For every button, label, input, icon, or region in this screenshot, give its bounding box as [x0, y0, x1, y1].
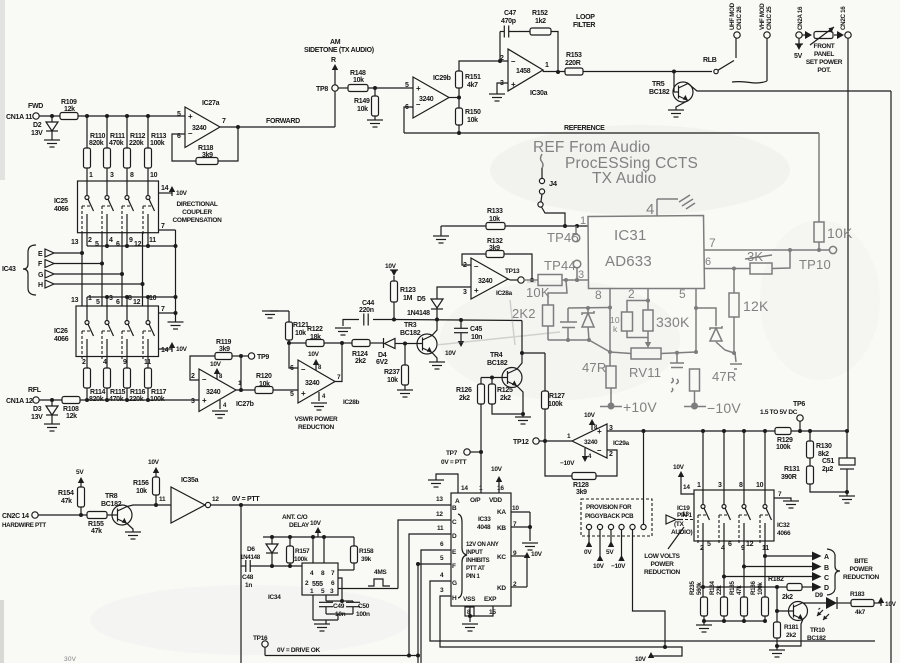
svg-text:10V: 10V — [635, 656, 647, 663]
resistor R113 100k — [145, 116, 167, 181]
svg-text:LOOP: LOOP — [576, 14, 595, 21]
svg-text:R112: R112 — [130, 133, 146, 140]
IC33 pin14 ground — [428, 474, 458, 493]
op-amp IC28b 3240 — [290, 360, 360, 406]
svg-text:BC182: BC182 — [101, 501, 122, 508]
resistor R122 18k — [289, 326, 342, 347]
svg-text:8: 8 — [595, 288, 602, 302]
svg-text:UHF MOD: UHF MOD — [729, 2, 736, 30]
svg-text:3: 3 — [440, 587, 444, 594]
op-amp IC30a 1458 — [500, 49, 549, 97]
svg-text:4MS: 4MS — [374, 569, 387, 576]
ground below TR3 emitter — [429, 353, 445, 370]
svg-text:14: 14 — [161, 185, 169, 192]
svg-text:R186: R186 — [750, 581, 757, 595]
capacitor C44 220n — [343, 300, 395, 326]
svg-text:R181: R181 — [784, 624, 799, 631]
svg-text:R155: R155 — [88, 521, 104, 528]
jumper J4 — [538, 168, 565, 226]
piggyback pad 5V — [606, 524, 614, 556]
svg-text:–: – — [474, 262, 479, 271]
svg-text:BC182: BC182 — [487, 360, 508, 367]
svg-text:IC32: IC32 — [777, 522, 790, 529]
label ANT C/O DELAY — [282, 514, 310, 529]
svg-text:IC35a: IC35a — [181, 477, 199, 484]
resistor R151 4k7 — [456, 71, 481, 98]
switch 4 inside IC32 — [760, 431, 772, 544]
svg-text:R151: R151 — [465, 74, 481, 81]
svg-text:10V: 10V — [445, 350, 457, 357]
svg-text:R153: R153 — [566, 52, 582, 59]
resistor 12K pencil — [729, 269, 769, 370]
pointer line — [668, 527, 684, 549]
svg-text:D3: D3 — [33, 406, 42, 413]
brace BITE — [827, 549, 840, 595]
svg-text:6: 6 — [440, 541, 444, 548]
capacitor C47 470p — [500, 10, 530, 61]
svg-text:VSWR POWER: VSWR POWER — [295, 416, 338, 423]
label LOW VOLTS POWER REDUCTION — [644, 553, 681, 576]
svg-text:+: + — [202, 396, 207, 405]
svg-text:POWER: POWER — [849, 566, 873, 573]
IC33 VSS EXP to ground — [462, 606, 496, 631]
feedback R118 3k9 of IC27a — [172, 125, 240, 165]
IC33 labels inside — [452, 497, 506, 603]
svg-text:15: 15 — [489, 609, 496, 616]
wire R126 to IC33 pin1 O/P — [480, 404, 482, 493]
svg-text:TP10: TP10 — [799, 257, 831, 272]
svg-text:4: 4 — [588, 454, 592, 460]
svg-text:100k: 100k — [294, 556, 308, 563]
feedback wire IC29b pin6 — [404, 107, 413, 133]
svg-text:R157: R157 — [295, 548, 310, 555]
svg-text:VSS: VSS — [463, 596, 476, 603]
555 power stubs — [313, 537, 324, 563]
svg-text:3k9: 3k9 — [576, 489, 587, 496]
svg-text:6: 6 — [705, 256, 711, 268]
svg-text:2k2: 2k2 — [355, 358, 366, 365]
svg-text:C: C — [452, 519, 457, 526]
input G arrow — [38, 270, 124, 279]
test point TP6 — [760, 401, 805, 431]
wire IC33 pin C to 555 output — [398, 520, 451, 589]
svg-text:10: 10 — [149, 295, 157, 302]
svg-text:R116: R116 — [130, 389, 146, 396]
svg-text:RLB: RLB — [703, 57, 717, 64]
svg-text:A: A — [824, 554, 829, 561]
TR4 base wire — [481, 376, 508, 380]
resistor R112 220k — [124, 116, 146, 181]
op-amp IC29b 3240 — [405, 75, 451, 118]
svg-text:10k: 10k — [295, 330, 306, 337]
svg-text:11: 11 — [437, 525, 444, 532]
svg-text:11: 11 — [762, 545, 769, 552]
svg-text:47k: 47k — [736, 585, 743, 595]
svg-text:IC29a: IC29a — [613, 440, 630, 447]
ground below TR8 emitter — [125, 524, 141, 540]
svg-text:BC182: BC182 — [649, 89, 670, 96]
IC32 pin14 with 10V — [673, 464, 694, 494]
svg-text:VDD: VDD — [489, 497, 502, 504]
svg-text:BITE: BITE — [854, 558, 869, 565]
wire FORWARD — [220, 91, 335, 127]
ground below R149 — [367, 116, 383, 127]
svg-text:10k: 10k — [136, 488, 147, 495]
svg-text:D: D — [452, 533, 457, 540]
svg-text:TP44: TP44 — [544, 258, 576, 273]
svg-text:3: 3 — [463, 289, 467, 296]
svg-text:R128: R128 — [573, 482, 589, 489]
piggyback pad 10V — [593, 524, 605, 570]
svg-text:3: 3 — [109, 295, 113, 302]
power 10V at IC28b pin8 — [308, 351, 322, 371]
op-amp IC29a 3240 (pointing left) — [567, 424, 630, 458]
wire to arrow B — [742, 562, 829, 572]
svg-text:2k2: 2k2 — [786, 632, 797, 639]
ground at IC27b pin4 — [212, 400, 228, 418]
svg-text:TP45: TP45 — [547, 230, 579, 245]
svg-text:22k: 22k — [716, 585, 723, 595]
svg-text:9: 9 — [129, 237, 133, 244]
resistor R120 10k — [236, 373, 298, 394]
svg-text:D6: D6 — [247, 546, 255, 553]
svg-text:E: E — [38, 251, 43, 258]
svg-text:R182: R182 — [768, 576, 784, 583]
power -10V at IC29a pin4 — [560, 448, 592, 467]
input E arrow — [38, 249, 84, 258]
svg-text:KD: KD — [497, 585, 506, 592]
svg-text:8: 8 — [739, 482, 743, 489]
IC25 bottom pin labels — [71, 237, 156, 248]
svg-text:FWD: FWD — [28, 103, 43, 110]
svg-text:13V: 13V — [31, 130, 43, 137]
resistor R124 2k2 — [342, 340, 384, 366]
svg-text:3240: 3240 — [478, 278, 493, 285]
svg-text:−10V: −10V — [611, 563, 626, 570]
svg-text:H: H — [38, 282, 43, 289]
svg-text:CN1A 12: CN1A 12 — [6, 398, 33, 405]
svg-text:2k2: 2k2 — [782, 594, 793, 601]
svg-text:IC31: IC31 — [614, 227, 647, 244]
ground below D3 — [44, 424, 60, 431]
resistor R235 560k — [689, 581, 708, 616]
svg-text:4k7: 4k7 — [855, 609, 866, 616]
potentiometer RV11 pencil — [610, 348, 696, 380]
svg-text:1.5 TO 5V DC: 1.5 TO 5V DC — [760, 409, 798, 416]
svg-text:CN1C 25: CN1C 25 — [766, 6, 773, 30]
transistor TR3 BC182 — [400, 322, 437, 354]
svg-text:B: B — [824, 565, 829, 572]
IC25 top pin labels — [89, 172, 158, 179]
svg-text:8: 8 — [219, 374, 223, 380]
resistor bottoms bus — [702, 616, 767, 623]
switch 1 inside IC32 — [698, 431, 710, 544]
svg-text:3: 3 — [578, 269, 584, 281]
piggyback pad 0V — [584, 524, 592, 556]
ground below R237 — [397, 390, 413, 397]
svg-text:+: + — [597, 427, 602, 436]
power 10V arrow on rail — [310, 520, 322, 537]
svg-text:KA: KA — [497, 509, 506, 516]
wire down to C48 — [241, 505, 246, 663]
svg-text:D2: D2 — [33, 122, 42, 129]
resistor R154 47k — [58, 487, 85, 515]
svg-text:R117: R117 — [151, 389, 167, 396]
ground below R181 — [769, 646, 785, 657]
svg-text:2: 2 — [88, 237, 92, 244]
svg-text:R119: R119 — [216, 339, 232, 346]
svg-text:R118: R118 — [198, 145, 214, 152]
svg-text:R130: R130 — [816, 443, 832, 450]
svg-text:SIDETONE (TX AUDIO): SIDETONE (TX AUDIO) — [304, 47, 374, 54]
resistor R125 2k2 — [489, 378, 526, 417]
svg-text:100k: 100k — [150, 140, 165, 147]
wire IC33 pin F — [416, 562, 451, 663]
svg-text:R156: R156 — [133, 480, 149, 487]
capacitor C49 10n — [319, 595, 346, 618]
svg-text:100k: 100k — [776, 444, 791, 451]
svg-text:10V: 10V — [491, 466, 503, 473]
connector CN1A pin 11 (FWD input) — [6, 103, 43, 121]
wire R151 top to IC30a pin2 — [459, 59, 508, 71]
svg-text:10: 10 — [150, 172, 158, 179]
svg-text:10k: 10k — [353, 77, 364, 84]
resistor 10K pencil from REFERENCE — [814, 133, 853, 250]
svg-text:R127: R127 — [549, 393, 565, 400]
svg-text:6: 6 — [331, 580, 335, 587]
555 pin7 wire — [338, 569, 354, 571]
analog switch IC26 4066 box — [54, 306, 159, 357]
svg-text:3k9: 3k9 — [202, 152, 213, 159]
svg-text:4066: 4066 — [54, 336, 69, 343]
IC32 pin13 input from IC19 — [666, 511, 694, 524]
inverter IC35a — [159, 477, 219, 523]
svg-text:220n: 220n — [359, 307, 374, 314]
svg-text:COMPENSATION: COMPENSATION — [172, 217, 222, 224]
svg-text:10V: 10V — [176, 346, 188, 353]
svg-text:TP6: TP6 — [793, 401, 805, 408]
switch 3 inside IC25 — [122, 181, 134, 236]
AD633 pin 2 wire — [628, 287, 650, 303]
IC33 KC KD wires to 10V — [511, 551, 543, 587]
test point TP10 (pencil) — [799, 246, 837, 272]
svg-text:D9: D9 — [815, 592, 823, 599]
svg-text:FILTER: FILTER — [573, 22, 595, 29]
svg-text:R133: R133 — [487, 208, 503, 215]
transistor TR5 BC182 — [649, 72, 693, 103]
svg-text:1: 1 — [89, 172, 93, 179]
svg-text:2k2: 2k2 — [459, 395, 470, 402]
TR4 emitter to ground — [515, 386, 531, 424]
svg-text:6: 6 — [116, 241, 120, 248]
wire IC33 pin H bottom bus — [440, 596, 682, 656]
svg-text:TP9: TP9 — [257, 354, 269, 361]
svg-text:10V: 10V — [210, 361, 222, 368]
ground below TR5 emitter — [668, 101, 688, 118]
handwriting Processing CCTS — [565, 155, 698, 172]
svg-text:0V: 0V — [584, 549, 592, 556]
ground at R133 left — [433, 226, 449, 243]
svg-text:220R: 220R — [565, 60, 581, 67]
svg-text:COUPLER: COUPLER — [182, 209, 212, 216]
svg-text:47k: 47k — [61, 498, 72, 505]
svg-text:4: 4 — [223, 403, 227, 409]
svg-text:CN2A 16: CN2A 16 — [797, 6, 804, 30]
svg-text:1: 1 — [545, 62, 549, 69]
power 10V label bottom — [635, 652, 654, 663]
svg-text:POT.: POT. — [817, 67, 831, 74]
svg-text:6: 6 — [116, 299, 120, 306]
svg-text:1n: 1n — [245, 582, 252, 589]
svg-text:R108: R108 — [63, 406, 79, 413]
TR8 collector wire — [127, 503, 171, 507]
resistor R110 820k — [84, 116, 106, 181]
svg-text:12: 12 — [133, 299, 141, 306]
svg-text:4k7: 4k7 — [467, 82, 478, 89]
svg-text:12K: 12K — [743, 298, 769, 314]
svg-text:3240: 3240 — [305, 380, 320, 387]
IC33 brace inside — [458, 514, 467, 598]
svg-text:TR10: TR10 — [810, 627, 825, 634]
front panel set power potentiometer — [802, 27, 844, 74]
resistor R109 12k — [60, 99, 78, 120]
resistor R149 10k — [354, 88, 379, 116]
svg-text:3: 3 — [191, 398, 195, 405]
svg-text:CN1C 26: CN1C 26 — [736, 6, 743, 30]
svg-text:2: 2 — [628, 287, 635, 301]
svg-text:IC27b: IC27b — [236, 401, 254, 408]
resistor R123 1M — [391, 281, 416, 322]
svg-text:IC29b: IC29b — [433, 75, 451, 82]
svg-text:2µ2: 2µ2 — [822, 466, 833, 473]
svg-text:G: G — [38, 272, 44, 279]
svg-text:R: R — [331, 57, 336, 64]
power 10V at IC29a pin8 — [584, 412, 598, 431]
wire 0V=PTT to IC33 pin B — [211, 496, 451, 507]
svg-text:–: – — [511, 57, 516, 66]
node rail pin8 pencil — [568, 306, 610, 310]
IC26 top pin labels — [71, 295, 157, 306]
svg-text:k: k — [613, 324, 618, 334]
wire 0V = DRIVE OK — [265, 647, 420, 658]
connector UHF MOD CN1C 26 — [729, 2, 743, 38]
svg-text:SET POWER: SET POWER — [806, 59, 843, 66]
svg-text:0V = DRIVE OK: 0V = DRIVE OK — [277, 647, 320, 654]
svg-text:TP13: TP13 — [505, 268, 520, 275]
svg-text:FRONT: FRONT — [814, 43, 835, 50]
555 pin6 wire — [338, 578, 344, 603]
svg-text:KC: KC — [497, 554, 506, 561]
power 10V at R183 — [874, 597, 897, 608]
test point TP44 (pencil) — [544, 258, 581, 282]
wire TR3 line to C45 and TR4 — [395, 318, 522, 322]
svg-text:IC25: IC25 — [54, 198, 68, 205]
svg-text:6: 6 — [728, 541, 732, 548]
svg-text:REDUCTION: REDUCTION — [298, 424, 335, 431]
IC32 pin7 to ground — [774, 491, 799, 508]
svg-text:3k9: 3k9 — [219, 346, 230, 353]
zener pencil right — [696, 308, 734, 353]
power 10V at R123 — [385, 263, 398, 281]
pulse symbol 4MS — [368, 569, 390, 586]
svg-text:8: 8 — [321, 570, 325, 577]
IC26 bottom pin labels — [82, 359, 151, 366]
svg-text:–: – — [202, 375, 207, 384]
IC26 pin7 to ground — [159, 306, 184, 329]
svg-text:B: B — [452, 505, 457, 512]
svg-text:10k: 10k — [387, 377, 398, 384]
svg-text:R115: R115 — [110, 389, 126, 396]
input H arrow — [38, 280, 145, 289]
ground at IC30a pin3 — [489, 83, 508, 101]
svg-text:R148: R148 — [350, 70, 366, 77]
svg-text:−10V: −10V — [560, 460, 575, 467]
pencil wire to pin8 node — [548, 340, 610, 352]
svg-text:IC26: IC26 — [54, 328, 68, 335]
resistor 330K pencil — [643, 301, 690, 349]
switch 1 inside IC26 — [82, 306, 94, 360]
resistor R158 39k — [351, 537, 375, 570]
connector CN2C 16 — [840, 6, 851, 38]
pencil squiggle above J4 — [541, 154, 544, 168]
svg-text:10V: 10V — [885, 601, 897, 608]
svg-text:12k: 12k — [64, 106, 75, 113]
svg-text:R109: R109 — [61, 99, 77, 106]
connector group IC43 brace — [2, 245, 36, 295]
svg-text:R113: R113 — [151, 133, 167, 140]
resistor 47R left pencil — [582, 360, 616, 404]
svg-text:CN1A 11: CN1A 11 — [6, 114, 32, 121]
svg-text:10V: 10V — [148, 459, 160, 466]
svg-text:1M: 1M — [403, 295, 413, 302]
resistor R133 10k — [445, 208, 588, 230]
svg-text:R122: R122 — [307, 326, 323, 333]
svg-text:IC27a: IC27a — [202, 100, 220, 107]
transistor TR4 BC182 — [487, 352, 522, 388]
analog switch IC32 4066 box — [694, 490, 791, 541]
IC32 top pin labels — [697, 482, 764, 489]
svg-text:+: + — [511, 80, 516, 89]
svg-text:–: – — [301, 365, 306, 374]
svg-text:IC33: IC33 — [478, 516, 491, 523]
svg-text:DIRECTIONAL: DIRECTIONAL — [176, 201, 217, 208]
test point TP13 — [505, 268, 524, 283]
svg-text:EXP: EXP — [484, 596, 497, 603]
capacitor C45 10n — [445, 320, 482, 357]
svg-text:10K: 10K — [827, 225, 853, 241]
IC25 pin7 wire — [159, 223, 176, 312]
wire IC33 pin G bottom bus — [430, 581, 875, 641]
TR10 emitter wire — [777, 619, 803, 646]
AM sidetone output arrow R — [304, 39, 374, 85]
wire R121 node to IC28b pin6 — [289, 343, 298, 368]
svg-text:1N4148: 1N4148 — [240, 554, 261, 561]
switch 4 inside IC26 — [143, 306, 155, 360]
TR4 collector wire — [517, 321, 545, 370]
svg-text:PIGGYBACK PCB: PIGGYBACK PCB — [585, 513, 634, 520]
svg-text:+: + — [474, 286, 479, 295]
svg-text:D5: D5 — [417, 296, 426, 303]
svg-text:+: + — [416, 84, 421, 93]
svg-text:100k: 100k — [548, 401, 563, 408]
IC32 bottom pin labels — [700, 541, 769, 552]
piggyback pad 6 wire to rail — [641, 429, 646, 530]
svg-text:1: 1 — [697, 482, 701, 489]
svg-text:4066: 4066 — [54, 206, 69, 213]
svg-text:11: 11 — [149, 237, 156, 244]
switch 1 inside IC25 — [82, 181, 94, 236]
wire to arrow C — [722, 572, 829, 582]
